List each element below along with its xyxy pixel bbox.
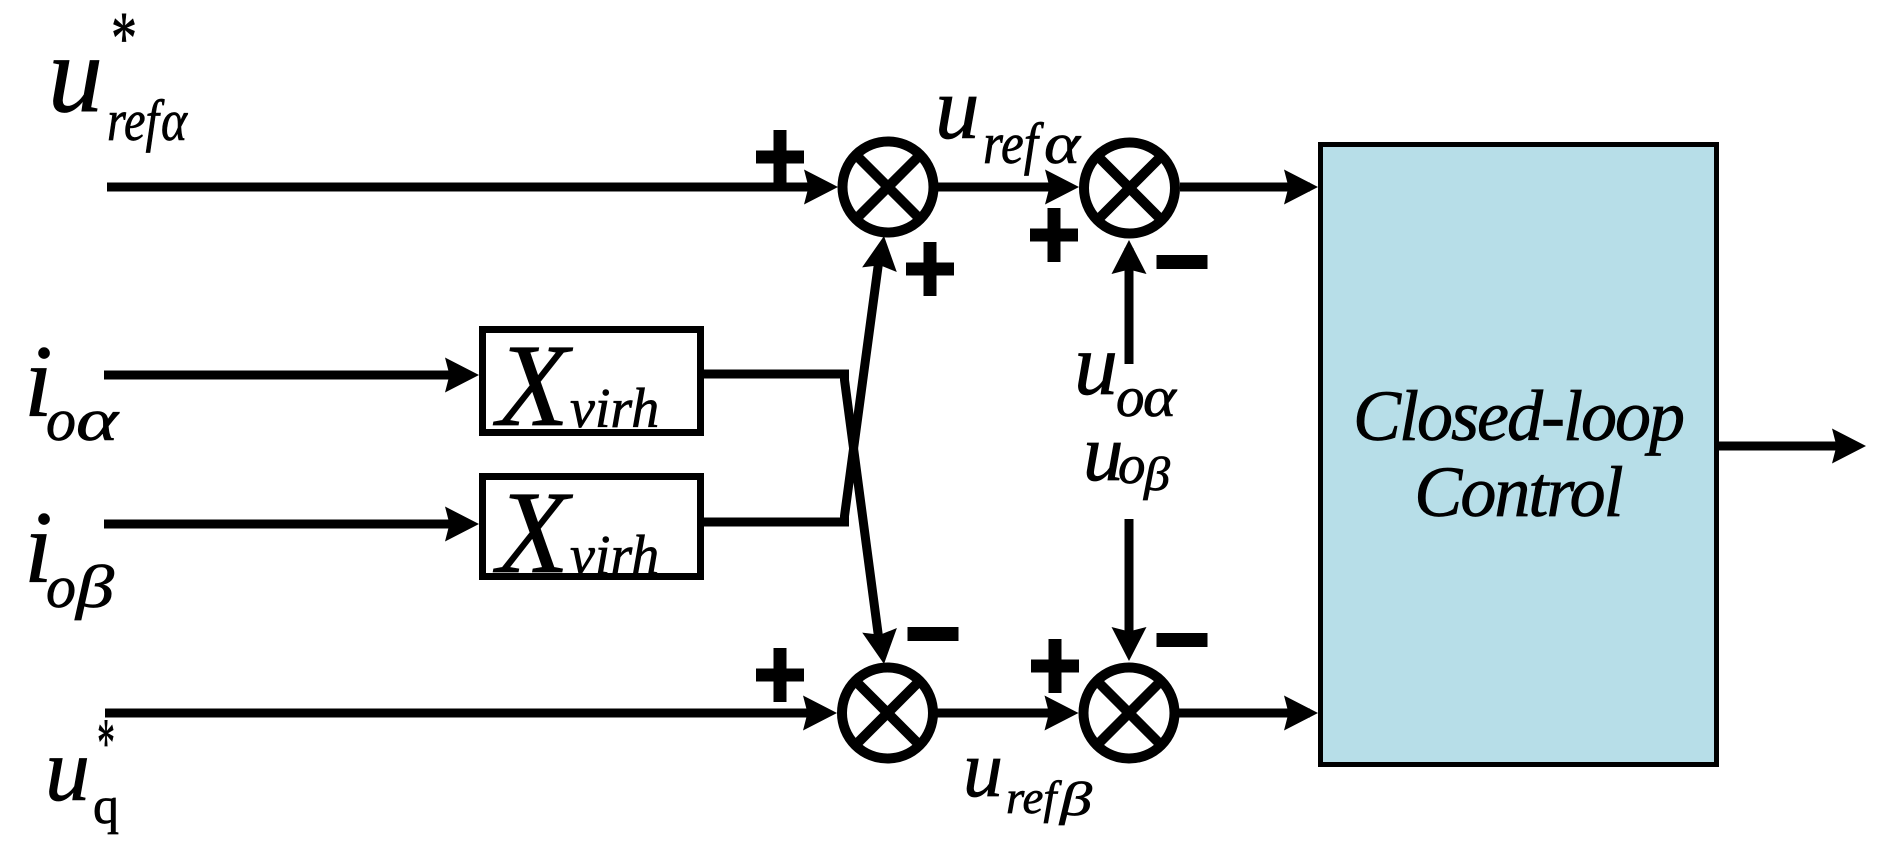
svg-text:o: o	[1118, 434, 1146, 495]
svg-text:virh: virh	[570, 378, 659, 440]
summing junction J1	[843, 142, 934, 233]
label i_oalpha input	[24, 325, 120, 453]
arrow into J3	[803, 696, 837, 731]
arrow into B1	[445, 358, 479, 393]
svg-text:α: α	[76, 387, 120, 453]
output arrow	[1832, 429, 1866, 464]
svg-text:u: u	[1074, 317, 1118, 414]
closed-loop control block	[1321, 145, 1717, 765]
minus sign at J2 bottom input	[1157, 255, 1208, 269]
summing junction J4	[1084, 668, 1175, 759]
svg-text:virh: virh	[570, 525, 659, 587]
svg-text:α: α	[1044, 111, 1082, 176]
label u*_refalpha input	[48, 0, 188, 153]
node u_oalpha label	[1074, 317, 1177, 429]
svg-text:X: X	[493, 467, 573, 598]
svg-text:ref: ref	[1006, 772, 1062, 824]
arrow down into J4	[1112, 627, 1147, 661]
wire J2 to control box	[1180, 183, 1310, 192]
wire u*_q to J3	[105, 709, 814, 718]
block B2 Xvirh	[483, 467, 701, 598]
arrow into B2	[445, 507, 479, 542]
svg-text:Closed-loop: Closed-loop	[1353, 376, 1683, 456]
svg-text:β: β	[1059, 773, 1092, 826]
summing junction J3	[842, 668, 933, 759]
plus sign at J3 left input	[756, 648, 804, 702]
svg-text:α: α	[1143, 366, 1177, 429]
wire J1 to J2	[938, 183, 1070, 192]
svg-text:X: X	[493, 320, 573, 451]
arrow into J1	[804, 170, 838, 205]
arrow into control box (top)	[1284, 170, 1318, 205]
label u*_q input	[45, 705, 119, 835]
svg-text:α: α	[161, 88, 188, 153]
plus sign at J1 bottom input	[906, 242, 954, 296]
arrow into control box (bottom)	[1284, 696, 1318, 731]
wire u_oalpha up into J2	[1125, 248, 1134, 364]
wire i_obeta to block B2	[104, 520, 452, 529]
block B1 Xvirh	[483, 320, 701, 451]
arrow into J2	[1045, 170, 1079, 205]
svg-text:q: q	[93, 778, 119, 835]
svg-text:u: u	[963, 726, 1003, 814]
wire u_obeta down into J4	[1125, 519, 1134, 652]
arrow into J4	[1045, 696, 1079, 731]
label i_obeta input	[24, 491, 114, 620]
svg-text:*: *	[111, 0, 137, 80]
svg-text:β: β	[75, 554, 114, 620]
wire J3 to J4	[937, 709, 1070, 718]
svg-text:u: u	[48, 13, 103, 135]
wire B1 output cross-coupled down to J3	[704, 374, 880, 648]
svg-text:β: β	[1143, 448, 1170, 501]
plus sign at J1 left input	[756, 130, 804, 184]
wire B2 output cross-coupled up to J1	[704, 252, 880, 522]
node u_refbeta label	[963, 726, 1092, 826]
plus sign at J2 left input	[1030, 208, 1078, 262]
svg-text:Control: Control	[1414, 452, 1622, 532]
summing junction J2	[1084, 143, 1175, 234]
output wire from control box	[1719, 442, 1840, 451]
svg-text:ref: ref	[983, 111, 1044, 176]
arrow down-diagonal into J3	[862, 628, 901, 666]
minus sign at J4 top input	[1157, 633, 1208, 647]
arrow up-diagonal into J1	[862, 234, 901, 272]
node u_refalpha label	[935, 60, 1082, 176]
svg-text:u: u	[45, 721, 90, 820]
minus sign at J3 top input	[908, 627, 959, 641]
arrow up into J2	[1112, 240, 1147, 274]
svg-text:ref: ref	[107, 88, 165, 153]
wire i_oalpha to block B1	[104, 371, 452, 380]
wire u*_refalpha to J1	[107, 183, 815, 192]
svg-text:o: o	[46, 554, 76, 620]
node u_obeta label	[1083, 408, 1170, 501]
wire J4 to control box	[1179, 709, 1310, 718]
svg-text:u: u	[935, 60, 980, 158]
plus sign at J4 left input	[1031, 639, 1079, 693]
svg-text:o: o	[46, 387, 76, 453]
